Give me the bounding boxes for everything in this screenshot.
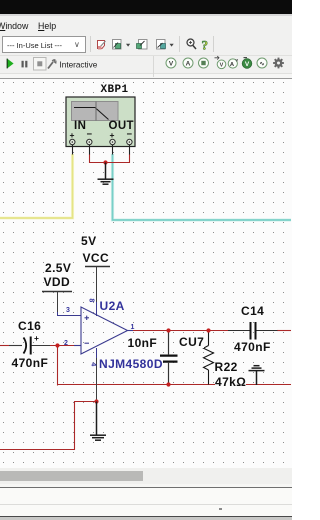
label terminal OUT- polarity	[127, 130, 133, 140]
play button	[7, 59, 13, 69]
probe icons	[166, 56, 267, 69]
pin stub XBP1 OUT+	[112, 145, 114, 155]
wire XBP1 OUT+ cyan to right edge	[113, 154, 292, 220]
wire C14 to right edge	[277, 330, 291, 332]
label net VDD	[44, 276, 71, 288]
capacitor C14	[228, 322, 278, 340]
pin stub XBP1 IN-	[89, 145, 91, 155]
label CU7 value 10nF	[128, 337, 158, 349]
label VDD value 2.5V	[45, 262, 71, 274]
op-amp U2A	[74, 307, 133, 358]
label C16 polarity +	[34, 334, 39, 343]
pin stub XBP1 OUT-	[129, 145, 131, 155]
title bar (black)	[0, 0, 292, 14]
label net VCC	[83, 252, 110, 264]
wire VDD to op-amp pin 3	[58, 292, 82, 316]
pin number 1	[131, 324, 135, 331]
icon: chip arrow left	[137, 40, 148, 50]
wire output net pin 1 to C14	[131, 330, 229, 332]
label terminal IN- polarity	[87, 130, 93, 140]
pause button	[22, 61, 24, 68]
In-Use List combo	[2, 36, 86, 53]
terminal XBP1 IN+	[70, 139, 75, 144]
label C16	[18, 320, 41, 332]
pin number 3	[66, 307, 70, 314]
menu bar	[0, 16, 292, 33]
junction CU7 top	[166, 328, 170, 332]
junction at pin 4	[94, 399, 98, 403]
toolbar row 1	[0, 33, 292, 55]
pin number 2	[64, 340, 68, 347]
wire XBP1 IN+ yellow to left edge	[0, 154, 73, 218]
label terminal IN+ polarity	[70, 131, 75, 140]
node A input junction	[55, 343, 59, 347]
junction R22 top	[206, 328, 210, 332]
icon: magnifier	[187, 39, 196, 49]
toolbar row 2	[0, 55, 292, 79]
capacitor CU7	[160, 331, 178, 385]
power symbol VCC 5V	[85, 266, 110, 268]
terminal XBP1 IN-	[87, 139, 92, 144]
icon: in-use probe	[98, 41, 106, 50]
wire C16 to op-amp pin 2	[50, 345, 76, 347]
terminal XBP1 OUT-	[127, 139, 132, 144]
wire XBP1 OUT- to ground junction	[106, 154, 130, 163]
wire node A down to bottom rail	[57, 346, 59, 386]
ground on bottom rail (flipped)	[249, 366, 265, 385]
junction CU7 bottom	[166, 382, 170, 386]
gear icon	[273, 58, 284, 69]
label XBP1 OUT	[109, 121, 134, 133]
wire input net from left edge to C16	[0, 345, 9, 347]
schematic canvas with grid dots	[0, 79, 292, 468]
ground below XBP1	[98, 163, 114, 185]
stop button frame	[34, 58, 47, 71]
capacitor C16	[9, 337, 50, 355]
label op-amp U2A	[100, 300, 125, 312]
label terminal OUT+ polarity	[110, 131, 115, 140]
label R22	[215, 361, 238, 373]
label C14	[241, 305, 264, 317]
junction below XBP1	[103, 160, 107, 164]
toolbar1 icons	[0, 0, 292, 56]
icon: place part with caret	[113, 40, 122, 50]
wrench icon	[48, 60, 56, 69]
label R22 value 47k ohm	[215, 376, 246, 388]
terminal XBP1 OUT+	[110, 139, 115, 144]
wire op-amp pin 4 down	[96, 358, 98, 402]
wire down to bottom-left edge	[0, 402, 75, 450]
power symbol VDD 2.5V	[42, 291, 72, 293]
label C14 value 470nF	[234, 341, 271, 353]
pin stub XBP1 IN+	[72, 145, 74, 155]
icon: chip arrow right with caret	[157, 40, 166, 50]
resistor R22	[204, 331, 214, 385]
label C16 value 470nF	[12, 357, 49, 369]
label op-amp part NJM4580D	[99, 358, 163, 370]
label XBP1 IN	[74, 121, 86, 133]
pin number 8	[88, 298, 95, 302]
wire pin 4 junction going left	[74, 401, 97, 403]
label CU7	[179, 336, 204, 348]
instrument XBP1 (Bode plotter) body	[66, 97, 135, 147]
ground below op-amp	[90, 402, 106, 441]
label XBP1	[101, 85, 129, 96]
wire VCC to op-amp pin 8	[96, 267, 98, 317]
horizontal scrollbar	[0, 468, 292, 484]
label VCC value 5V	[81, 235, 96, 247]
wire XBP1 IN- to ground junction	[90, 154, 106, 163]
pin number 4	[89, 362, 96, 366]
status area	[0, 484, 292, 487]
wire bottom ground rail	[58, 384, 292, 386]
separator	[153, 56, 155, 77]
